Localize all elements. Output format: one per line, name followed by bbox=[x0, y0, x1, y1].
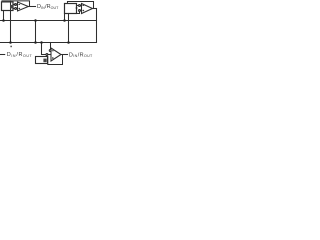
junction dot B2 right edge bbox=[76, 7, 78, 9]
pin circle U3 non-inverting bbox=[46, 54, 48, 56]
op-amp U1 triangle bbox=[18, 2, 29, 11]
svg-text:DIN/ROUT: DIN/ROUT bbox=[69, 52, 93, 58]
wire U2 output bbox=[93, 8, 97, 10]
wire B1 to U1 inverting input bbox=[13, 4, 15, 6]
junction dot U1 inverting node bbox=[14, 4, 16, 6]
pin circle U1 non-inverting bbox=[15, 8, 17, 10]
wire U2 feedback top bbox=[68, 2, 94, 9]
junction dot lower rail x41.5 bbox=[40, 41, 43, 44]
minus mark U3 bbox=[52, 50, 54, 52]
box B1 interior marking bbox=[10, 5, 13, 8]
box B1 (top-left DAC) bbox=[2, 2, 14, 11]
wire B1 left pin to upper bus bbox=[3, 11, 5, 21]
junction dot lower rail x68.5 bbox=[67, 41, 70, 44]
wire stubs into U1 bbox=[16, 5, 19, 9]
svg-text:DIN/ROUT: DIN/ROUT bbox=[37, 4, 59, 10]
box B3 interior marking bbox=[43, 59, 46, 63]
pin circle U2 inverting bbox=[79, 5, 81, 7]
wire lower rail bbox=[0, 42, 97, 44]
wire U1 output bbox=[28, 6, 35, 8]
wire B2 left pin to upper bus bbox=[64, 14, 66, 21]
svg-text:DIN/ROUT: DIN/ROUT bbox=[7, 52, 33, 58]
pin circle U2 non-inverting bbox=[79, 10, 81, 12]
stray mark under lower rail bbox=[10, 46, 12, 48]
wire B2 right pin down to lower rail bbox=[68, 14, 70, 43]
wire stubs into U3 bbox=[48, 54, 51, 56]
wire riser joining buses at x35.5 bbox=[35, 21, 37, 43]
wire U3 non-inverting input feed (L from lower rail) bbox=[42, 43, 46, 55]
pin circle U3 inverting bbox=[49, 50, 51, 52]
wire U3 output bbox=[61, 54, 68, 56]
junction dot upper bus x64.5 bbox=[63, 19, 66, 22]
minus mark U1 bbox=[19, 4, 21, 6]
wire U1 feedback top bbox=[2, 1, 30, 7]
junction dot upper bus x3.5 bbox=[2, 19, 5, 22]
plus mark U2 bbox=[83, 10, 85, 12]
wire stubs into U2 bbox=[80, 6, 81, 11]
junction dot lower rail x10.5 bbox=[9, 41, 12, 44]
op-amp U2 triangle bbox=[82, 4, 93, 14]
wire U3 feedback under-loop bbox=[48, 55, 63, 65]
wire B1 right pin through box down to lower rail bbox=[10, 1, 12, 43]
wire B1 to U1 non-inverting input bbox=[13, 8, 15, 10]
wire stub for bottom-left label bbox=[0, 54, 5, 56]
wire U3 inverting feedback stub from lower rail bbox=[50, 43, 52, 50]
junction dot lower rail x35.5 bbox=[34, 41, 37, 44]
wire B2 to U2 inverting input bbox=[77, 5, 79, 7]
op-amp U3 triangle bbox=[51, 48, 61, 61]
pin circle U1 inverting bbox=[15, 4, 17, 6]
junction dot upper bus x35.5 bbox=[34, 19, 37, 22]
wire B2 bottom extension to U2 non-inverting input bbox=[77, 11, 80, 13]
wire B3 pin to U3 non-inverting circle bbox=[46, 55, 48, 56]
wire upper bus bbox=[0, 20, 97, 22]
box B3 (bottom DAC) bbox=[36, 57, 48, 64]
plus mark U1 bbox=[19, 8, 21, 10]
wire right connector from U2 output down to lower rail bbox=[96, 9, 98, 43]
plus mark U3 bbox=[52, 57, 54, 59]
box B2 (top-right DAC) bbox=[65, 4, 77, 14]
minus mark U2 bbox=[83, 5, 85, 7]
